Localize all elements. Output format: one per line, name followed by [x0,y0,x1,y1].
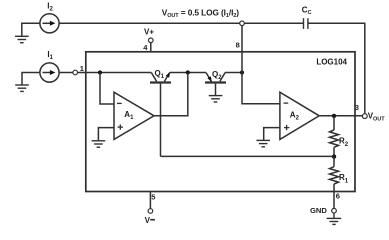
svg-text:Q2: Q2 [212,70,222,81]
terminal node pin 8 on top wire [240,21,245,26]
wire I2 output to capacitor [59,22,303,24]
wire Q1 emitter to Q2 [170,72,206,74]
wire A2 + input to ground [264,128,280,141]
svg-text:LOG104: LOG104 [316,57,347,66]
svg-text:8: 8 [236,40,240,49]
svg-text:6: 6 [336,191,340,200]
terminal pin 5 [148,209,153,214]
wire A1 output [154,73,188,116]
svg-text:Q1: Q1 [155,69,165,80]
wire pin 8 down to A2 inverting input [242,26,280,104]
resistor R2 [330,116,339,156]
current source I1 [40,63,59,82]
junction node A2 output / R2 [332,114,336,118]
pin 4 V+ terminal [149,38,154,43]
current source I2 [40,14,59,33]
svg-text:5: 5 [151,192,155,201]
ground (pin 6) [327,213,342,224]
transistor Q2 [205,73,226,96]
svg-text:V: V [145,216,151,225]
svg-text:I2: I2 [47,2,53,13]
ground (Q2) [209,96,223,102]
IC box LOG104 [86,52,355,192]
svg-text:R2: R2 [339,136,349,148]
transistor Q1 [150,72,171,156]
op-amp A1 [114,92,154,139]
ground (I2) [15,36,29,42]
svg-text:3: 3 [355,103,359,112]
pin 6 wire below box [333,192,335,209]
pin 5 wire below box [149,192,151,209]
svg-text:I1: I1 [47,50,53,61]
wire Q2 collector to pin 8 line [225,72,242,74]
svg-text:4: 4 [143,43,148,52]
wire capacitor to VOUT node [308,23,365,113]
junction node pin 8 / Q2 collector [240,70,244,74]
svg-text:V+: V+ [144,28,154,37]
junction node R2/R1 feedback [332,154,336,158]
svg-text:R1: R1 [339,173,349,185]
capacitor CC [304,18,308,29]
wire I1 to ground [22,73,40,85]
terminal pin 6 GND [332,208,337,213]
terminal pin 1 [73,70,78,75]
wire pin 1 into box to Q1 collector [78,72,152,74]
wire pin 4 [150,43,152,52]
wire A1 + input to ground [98,128,114,141]
svg-text:GND: GND [310,206,327,215]
svg-text:CC: CC [302,5,312,16]
junction node at pin1/A1 input [98,70,102,74]
ground (A2 +) [256,140,270,146]
ground (I1) [15,85,29,91]
wire I1 to pin 1 [59,72,73,74]
terminal pin 3 VOUT [362,114,367,119]
svg-text:VOUT: VOUT [368,112,386,123]
ground (A1 +) [92,141,106,147]
wire feedback to Q1 base [161,155,335,157]
wire node to A1 inverting input [100,73,114,105]
resistor R1 [330,157,339,192]
junction node A1 output [186,70,190,74]
op-amp A2 [280,92,319,139]
wire A2 output to pin 3 [319,115,363,117]
wire I2 to ground [22,23,40,36]
svg-text:VOUT = 0.5 LOG (I1/I2): VOUT = 0.5 LOG (I1/I2) [162,7,239,19]
